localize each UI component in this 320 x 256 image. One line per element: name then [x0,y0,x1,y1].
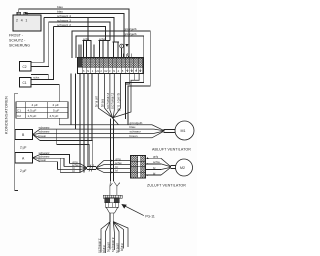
svg-text:blau: blau [102,245,106,253]
arrows into M2 terminal block [111,160,115,173]
svg-text:bl: bl [153,171,156,175]
svg-text:schwarz: schwarz [97,238,101,253]
svg-text:schw: schw [153,160,161,164]
svg-text:C2: C2 [17,114,21,118]
table texts [17,103,59,118]
svg-text:braun: braun [94,95,98,107]
svg-text:1,5 µF: 1,5 µF [28,114,37,118]
svg-text:blau: blau [57,5,63,9]
splice right funnel diverging [96,161,131,173]
wire stubs into strip top [79,45,94,59]
svg-text:2 µF: 2 µF [53,103,59,107]
svg-text:4: 4 [21,18,23,22]
cable funnel below strip: 5 wires converging [98,74,120,118]
svg-text:C1: C1 [17,109,21,113]
svg-text:N: N [113,69,115,73]
svg-text:br: br [153,166,156,170]
motor M1 [175,121,194,140]
svg-text:schwarz: schwarz [106,92,110,109]
wire blau (top, from fuse terminal 2) [19,9,129,58]
PG-11 cable gland [103,181,122,213]
svg-text:1: 1 [25,18,27,22]
wires from capacitor A [33,155,41,162]
M1 junction [163,130,165,132]
svg-text:grü./gelb: grü./gelb [117,92,121,111]
svg-text:SICHERUNG: SICHERUNG [9,43,30,47]
svg-text:grün/gelb: grün/gelb [124,32,137,36]
svg-text:braun: braun [106,242,110,252]
wire blau (second, from fuse terminal 4) [25,12,124,58]
svg-text:N: N [87,69,89,73]
jumper comb 3 above strip [113,42,119,58]
svg-text:2 µF: 2 µF [20,146,26,150]
wire schwarz label at C1 [33,75,40,79]
motor M1 wire bundle [40,118,163,138]
capacitor value table [16,102,68,118]
terminal designation texts [83,69,124,73]
svg-text:blau: blau [101,98,105,107]
terminal strip end cap [78,58,82,67]
cable below gland [110,213,113,222]
M2 cable [170,166,175,169]
schw labels above strip [83,37,105,41]
PG-11 label with arrow [124,205,144,215]
capacitor C1 [19,77,31,87]
svg-text:schw: schw [99,37,105,41]
svg-text:braun: braun [115,243,119,253]
jumper comb 2 above strip [99,41,111,58]
tap wire to splice funnel 1 [40,141,93,167]
svg-text:ZULUFT VENTILATOR: ZULUFT VENTILATOR [147,184,186,188]
M2 bundle converge [161,158,170,175]
svg-text:M1: M1 [181,129,186,133]
capacitor C2 [19,61,31,71]
ZULUFTVENTILATOR caption [147,184,186,188]
bracket for capacitor group [15,93,18,190]
svg-text:2: 2 [16,18,18,22]
jumper comb 1 above strip [83,18,92,59]
wire to splice funnel from A (braun) [40,158,64,166]
svg-text:bl: bl [73,169,76,173]
svg-text:schwarz 4: schwarz 4 [57,14,71,18]
bottom fan wire labels (vertical) [97,237,124,253]
svg-text:gr/g: gr/g [153,155,159,159]
splice cable with break [87,166,96,169]
M1 bundle labels [130,121,143,138]
svg-text:C2: C2 [23,65,27,69]
svg-text:SCHUTZ -: SCHUTZ - [9,38,26,42]
svg-text:5 µF: 5 µF [53,109,59,113]
svg-text:FROST -: FROST - [9,33,24,37]
motor M2 [176,159,193,176]
svg-text:M2: M2 [180,166,185,170]
svg-text:PG-11: PG-11 [145,215,155,219]
terminal strip outer frame [78,58,144,74]
link wire C2 to C1 [31,75,48,80]
svg-text:schw.: schw. [33,75,40,79]
grün/gelb wire 1 (top right run with hook) [72,31,150,125]
svg-text:schwarz: schwarz [111,237,115,252]
frost protection fuse box (FROST-SCHUTZ-SICHERUNG) [13,12,41,31]
wire to splice funnel from A (schwarz) [40,155,70,164]
hook wire from strip bottom right [114,74,140,118]
tiny marks above right strip cells [123,54,131,58]
grün/gelb wire 2 (second run with hook) [76,36,144,119]
svg-text:U1: U1 [96,69,100,73]
svg-text:schw: schw [83,37,89,41]
vertical taps onto M1 bundle [71,74,75,130]
M2 junction [169,166,171,168]
fuse box terminal labels 2 4 1 [16,18,27,22]
wire schwarz 4 (to capacitor C2) [31,18,114,63]
capacitor A box [15,153,33,164]
ground marks in terminal cells [126,69,141,72]
wires out of M2 block with arrows [146,158,162,175]
svg-text:2 µF: 2 µF [20,169,26,173]
fuse box caption [9,33,30,47]
splice left funnel labels [72,160,79,173]
wire from C1 down to motor bundle [31,85,59,125]
KONDENSATOREN caption (rotated) [5,96,9,134]
terminal strip hatched body [78,58,143,67]
svg-text:KONDENSATOREN: KONDENSATOREN [5,96,9,134]
svg-text:schwarz 2: schwarz 2 [57,23,71,27]
svg-text:C1: C1 [23,81,27,85]
svg-text:4,5 µF: 4,5 µF [28,109,37,113]
funnel junction [112,117,114,119]
splice right funnel labels [115,157,122,173]
earth triangle symbol [125,44,128,47]
B wire labels [39,125,51,138]
svg-text:blau: blau [120,243,124,251]
svg-text:schwarz: schwarz [130,130,142,134]
svg-text:braun: braun [130,134,138,138]
M1 cable [164,129,175,132]
svg-text:U2: U2 [104,69,108,73]
wires from capacitor B [33,129,41,141]
M2 terminal block [131,156,146,179]
svg-text:grün/gelb: grün/gelb [124,27,137,31]
tap wire to splice funnel 2 [57,129,89,166]
main cable down to gland [111,119,114,181]
wire schwarz 3 (to capacitor C2) [31,22,110,66]
funnel wire colour labels (vertical) [94,92,120,111]
wire schwarz 2 (to capacitor C1) [31,27,105,80]
svg-text:schwarz 3: schwarz 3 [57,18,71,22]
svg-text:4 µF: 4 µF [32,103,38,107]
PE connection point symbol [120,44,124,58]
A wire labels [39,151,51,162]
M2 wire labels [153,155,161,176]
long verticals from strip bottom [80,74,92,173]
B value label 2 uF [20,146,26,150]
stub from strip bottom [126,74,135,85]
A value label 2 uF [20,169,26,173]
capacitor B box [15,130,33,140]
terminal strip cell dividers [78,58,143,73]
splice left funnel wires [58,164,88,173]
svg-text:bl: bl [116,169,119,173]
bottom wire fan-out [101,222,128,253]
svg-text:schwarz: schwarz [110,92,114,109]
wire to splice funnel from A (blau) [40,158,60,172]
ABLUFTVENTILATOR caption [152,147,191,151]
grün/gelb labels [124,27,137,36]
svg-text:4,5 µF: 4,5 µF [50,114,59,118]
svg-text:ABLUFT VENTILATOR: ABLUFT VENTILATOR [152,147,191,151]
top wire colour labels [57,5,71,27]
